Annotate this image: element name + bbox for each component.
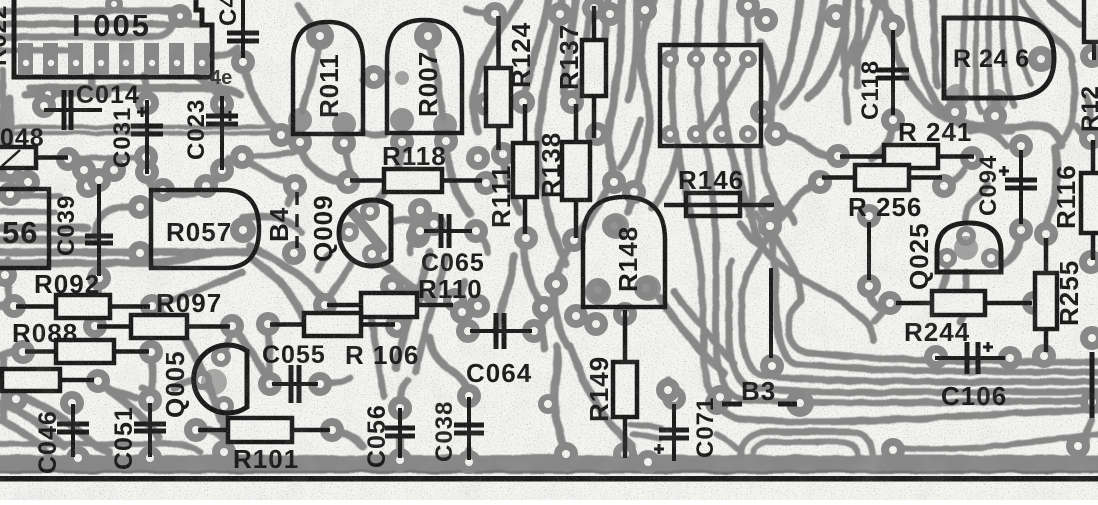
wire square bottom fan 1 bbox=[652, 150, 678, 208]
transistor Q009 outline bbox=[339, 200, 391, 266]
wire left bundle 3 bbox=[0, 248, 250, 256]
resistor R255 bbox=[1035, 238, 1057, 352]
wire Q025 leg mid bbox=[960, 272, 966, 322]
pad above R148 bbox=[602, 170, 646, 204]
wire jumper pads link bbox=[869, 288, 878, 308]
wire R246 right arc 2 bbox=[1050, 0, 1080, 24]
wire center to bottom mid bbox=[555, 162, 612, 346]
pad B3 bbox=[705, 389, 814, 417]
capacitor C106 bbox=[935, 342, 1005, 374]
wire R092 right up diag bbox=[152, 272, 242, 306]
wire R246 halo 2 bbox=[908, 0, 1012, 130]
wire C094 to R255 bbox=[1045, 148, 1057, 236]
wire E right diag 2 bbox=[674, 292, 734, 364]
pad R011 bottom bbox=[288, 130, 356, 155]
wire R092-R097 diag bbox=[152, 306, 221, 420]
pad R118 ends bbox=[336, 92, 498, 195]
wire C071 band join bbox=[674, 458, 694, 463]
wire C051 top link bbox=[142, 388, 150, 400]
pad blob Q009 interior bbox=[352, 212, 382, 248]
lead wire right edge bbox=[1090, 352, 1095, 418]
pad Q009 inside bbox=[339, 201, 382, 264]
resistor R244 bbox=[896, 291, 1032, 315]
wire left y212 bbox=[0, 209, 55, 215]
pad C top bbox=[231, 50, 255, 74]
pad R137 ends bbox=[582, 0, 609, 146]
pad C118 ends bbox=[881, 14, 905, 132]
wire C094 down bbox=[1002, 228, 1021, 264]
pad C039 bottom bbox=[87, 266, 111, 290]
pad blob R148 interior bbox=[585, 213, 661, 305]
resistor R256 bbox=[822, 165, 942, 190]
wire R057 top right bbox=[243, 217, 302, 232]
wire bottom-left diag 3 bbox=[0, 420, 50, 456]
wire e4 feeder bbox=[729, 260, 732, 268]
pad C071 ends bbox=[656, 378, 732, 410]
wire R246 right arc 1 bbox=[1022, 0, 1072, 62]
wire Q009 low right bbox=[380, 262, 432, 302]
pad blob Q005 interior bbox=[201, 369, 227, 395]
wire R246 through v3 bbox=[989, 0, 997, 110]
wire top right fan 4 bbox=[842, 10, 862, 74]
wire R256 left trail bbox=[770, 182, 820, 226]
resistor right edge top bbox=[1092, 42, 1096, 60]
pad R106 ends bbox=[256, 312, 409, 338]
wire Q009 left bbox=[318, 254, 330, 270]
wire R110 down strand bbox=[372, 320, 384, 396]
capacitor C064 bbox=[470, 313, 532, 349]
wire R246 right down bbox=[1060, 66, 1075, 146]
wire e1 feeder diag bbox=[756, 214, 800, 300]
wire R057 left pads link bbox=[96, 207, 128, 240]
pad C106 ends bbox=[924, 345, 1022, 370]
wire left col vert 1 bbox=[6, 98, 14, 152]
pad C055 ends bbox=[258, 372, 332, 396]
wire C071 right diag bbox=[716, 434, 738, 449]
IC I005 pins bbox=[18, 43, 209, 74]
wire Q009 pads to C065 bbox=[392, 219, 420, 224]
wire center down left of R148 bbox=[540, 170, 566, 264]
resistor R241 bbox=[840, 145, 974, 168]
pad C023 bbox=[194, 92, 293, 198]
wire R011 top in bbox=[302, 40, 320, 112]
pad R116 ends bbox=[1079, 126, 1098, 274]
wire right band riser bbox=[1074, 444, 1080, 462]
IC square outline bbox=[660, 45, 761, 146]
pad R148 inside bbox=[586, 214, 658, 302]
wire right edge low bbox=[1086, 420, 1092, 444]
wire right mid diag 1 bbox=[740, 224, 874, 340]
wire R146 right trail bbox=[777, 206, 794, 222]
wire top-left bus 3 bbox=[0, 26, 172, 37]
wire bottom bus s7 low bbox=[898, 434, 1098, 449]
jumper wire B bbox=[867, 222, 871, 280]
wire R007 bottom pad 1 bbox=[372, 144, 402, 206]
transistor Q005 outline bbox=[194, 345, 247, 413]
capacitor C071 bbox=[654, 404, 689, 461]
wire elbow e5 bbox=[697, 0, 1098, 403]
pad 048 lead bbox=[56, 147, 80, 171]
pad top right singles bbox=[754, 4, 848, 32]
pad mid band bbox=[538, 394, 660, 474]
wire R088 right bbox=[151, 352, 153, 398]
pad left res bbox=[4, 369, 110, 411]
wire left bundle 2 bbox=[0, 236, 88, 244]
pad C051 ends bbox=[138, 388, 162, 470]
wire pin5 drop bbox=[144, 76, 147, 94]
pad square IC bbox=[661, 50, 757, 143]
wire R097 right down bbox=[232, 326, 270, 382]
pad blob R007 interior bbox=[390, 71, 457, 137]
wire C094 surround bbox=[970, 130, 1008, 146]
wire R246 halo 3 bbox=[933, 0, 938, 86]
pad Q005 inside bbox=[192, 347, 234, 416]
wire bottom-left diag 2 bbox=[0, 404, 64, 446]
capacitor C046 bbox=[57, 404, 89, 457]
component 56 box bbox=[0, 189, 49, 268]
wire caps to R057 link bbox=[165, 190, 206, 195]
pad R246 inside bbox=[1028, 46, 1054, 72]
wire R092 to left bbox=[0, 302, 14, 310]
pad R101 ends bbox=[184, 418, 344, 442]
wire mid band riser 3 bbox=[542, 310, 544, 348]
pad C064 ends bbox=[456, 319, 546, 343]
wire left edge vert low bbox=[1, 360, 8, 420]
resistor R092 bbox=[16, 295, 150, 318]
pad R092 ends bbox=[2, 294, 164, 318]
wire R011 bottom pad 2 bbox=[344, 145, 352, 176]
wire C071 left link b bbox=[632, 434, 659, 439]
pad blob R011 interior bbox=[288, 108, 356, 136]
pad IC pins under bbox=[39, 0, 192, 103]
wire C4 pad diag to B4 bbox=[244, 160, 294, 186]
pad blob R246 interior bbox=[945, 84, 1008, 111]
wire C118 bottom trail bbox=[872, 118, 893, 158]
wire center bus 7 bbox=[628, 0, 637, 100]
wire R057 right sweep 2 bbox=[254, 260, 304, 322]
capacitor C051 bbox=[134, 403, 166, 457]
wire R256 right pads bbox=[944, 170, 964, 186]
wire mid band riser 2 bbox=[570, 346, 632, 446]
pad Q005 below bbox=[212, 440, 236, 464]
wire Q025 leg left bbox=[940, 270, 947, 294]
resistor R146 bbox=[664, 193, 774, 216]
capacitor C056 bbox=[385, 408, 415, 458]
resistor R088 bbox=[25, 340, 149, 363]
pad R111 ends bbox=[511, 90, 538, 250]
wire right edge vert bbox=[1086, 96, 1091, 122]
pad right edge top bbox=[1080, 44, 1098, 68]
wire C118 col bbox=[845, 0, 848, 122]
pad below R148 bbox=[564, 304, 608, 336]
wire R011 bottom pad 1 down bbox=[300, 144, 344, 182]
wire R246 through v4 bbox=[1002, 0, 1015, 106]
wire left of square 2 bbox=[620, 120, 640, 168]
pad Q009 cluster bbox=[362, 65, 446, 248]
wire bottom band bbox=[0, 455, 1098, 471]
wire R246 lead right bbox=[994, 98, 1001, 116]
pad B4 bbox=[282, 174, 307, 265]
wire C039 pad down bbox=[90, 278, 99, 308]
wire R088 to left bbox=[0, 352, 23, 356]
wire C038 top up bbox=[430, 338, 469, 396]
wire thin pair y127 bbox=[0, 125, 290, 130]
component R007 outline bbox=[387, 20, 462, 133]
wire E right diag 1 bbox=[660, 298, 724, 374]
wire left edge vert pair bbox=[0, 70, 7, 148]
wire left y196 bbox=[0, 193, 60, 199]
wire C031 bottom trail bbox=[147, 174, 162, 192]
resistor R149 bbox=[613, 310, 637, 458]
wire bottom-left diag 1 bbox=[0, 388, 110, 452]
resistor R118 bbox=[350, 169, 482, 192]
wire right of R007 S bbox=[474, 0, 521, 132]
wire left bundle 4 bbox=[0, 252, 246, 263]
wire center bus 5 bbox=[600, 0, 608, 84]
pad blob Q025 interior bbox=[954, 236, 978, 260]
wire Q009 bottom to R110 bbox=[326, 262, 352, 303]
wire R138 top up bbox=[576, 82, 580, 108]
wire C071 top link bbox=[668, 380, 674, 398]
wire Q005 bottom down bbox=[220, 408, 228, 450]
wire bottom nested U2 bbox=[753, 442, 858, 458]
wire y158 right link bbox=[228, 150, 303, 158]
pad C046 ends bbox=[60, 391, 90, 470]
capacitor C094 bbox=[999, 150, 1037, 224]
wire C064 crossing vert bbox=[496, 256, 514, 330]
wire mid bottom verts 2 bbox=[466, 450, 473, 462]
wire elbow e1 bbox=[788, 300, 1098, 362]
pad C056 ends bbox=[388, 396, 412, 472]
wire thin pair y133 bbox=[0, 131, 290, 136]
pad R138 ends bbox=[560, 90, 586, 252]
wire top-left bus 1 bbox=[0, 8, 172, 15]
resistor R110 bbox=[327, 293, 453, 317]
wire center bus 6 bbox=[609, 0, 622, 162]
wire C046 band join bbox=[78, 456, 96, 463]
capacitor C014 bbox=[44, 90, 102, 130]
wire right of square bbox=[760, 42, 774, 142]
wire R110 right pad link bbox=[455, 282, 464, 300]
wire C065 left down bbox=[410, 231, 420, 252]
pad R146 ends bbox=[758, 195, 782, 219]
wire R149 lower join bbox=[630, 452, 650, 463]
wire bottom nested U1 bbox=[741, 432, 873, 458]
wire square to R146 lead bbox=[762, 148, 777, 204]
wire R241 left link bbox=[776, 134, 838, 156]
wire between bottoms bbox=[362, 132, 384, 135]
component R148 outline bbox=[583, 197, 665, 307]
wire R124 bottom out bbox=[503, 158, 520, 212]
resistor R106 bbox=[270, 313, 395, 336]
jumper B3 bbox=[722, 402, 797, 407]
wire left res to C051 bbox=[98, 385, 136, 398]
wire B4 pad link bbox=[288, 190, 295, 204]
wire R116 top link bbox=[1076, 126, 1091, 138]
wire R244 left band drop bbox=[874, 303, 890, 322]
wire cap C4 down to R011 bbox=[243, 64, 281, 134]
wire bottom band edge dark bbox=[0, 471, 1098, 474]
wire R007 bottom pad 2 bbox=[446, 143, 470, 214]
pad jumper bbox=[857, 204, 881, 298]
wire C065 right link bbox=[476, 231, 488, 252]
pad C014 bbox=[32, 94, 56, 118]
capacitor C038 bbox=[454, 397, 484, 460]
pad cluster left bbox=[0, 158, 100, 287]
wire center bus 1 bbox=[522, 0, 548, 108]
wire top right fan 5 bbox=[854, 0, 878, 62]
wire C118 top link bbox=[874, 0, 893, 28]
resistor R137 bbox=[582, 6, 606, 138]
pad E left cluster bbox=[380, 274, 424, 308]
wire left res down bbox=[98, 382, 158, 438]
pad C038 ends bbox=[457, 384, 481, 474]
capacitor C031 bbox=[131, 100, 163, 174]
wire elbow e3 bbox=[742, 210, 1098, 382]
wire E left strand 2 bbox=[416, 256, 446, 372]
pad C038 above bbox=[450, 294, 490, 324]
pad right mid cluster bbox=[750, 100, 788, 378]
pad center mid bbox=[532, 272, 568, 320]
wire R124 top pad row bbox=[466, 10, 490, 13]
pad R088 ends bbox=[11, 340, 163, 364]
wire left of square bbox=[628, 0, 655, 212]
wire elbow e6 bbox=[672, 0, 1098, 422]
wire square col 4 bbox=[747, 0, 748, 40]
pad R057 inside bbox=[230, 217, 256, 243]
wire R101 right to band bbox=[332, 430, 362, 446]
wire E left strand 1 bbox=[396, 252, 430, 368]
wire square col 3 bbox=[721, 0, 760, 242]
wire C118 col 2 bbox=[857, 0, 860, 86]
wire C064 right up bbox=[534, 288, 556, 331]
resistor R138 bbox=[562, 104, 590, 238]
wire square bottom fan 2 bbox=[748, 148, 753, 216]
wire R246 through v5 bbox=[1014, 0, 1032, 84]
capacitor C4 top bbox=[227, 0, 259, 58]
wire under IC to C caps bbox=[30, 88, 240, 95]
component R011 outline bbox=[293, 22, 363, 134]
resistor R124 bbox=[486, 16, 511, 150]
wire R007 top in bbox=[428, 40, 444, 118]
wire under IC row2 bbox=[25, 91, 108, 98]
pad R011 top bbox=[306, 22, 334, 50]
wire Q025 top feed bbox=[966, 184, 988, 220]
pad top mid row bbox=[548, 0, 760, 26]
pad R007 bottom bbox=[390, 129, 458, 154]
pad R255 ends bbox=[1032, 222, 1058, 368]
wire elbow e2 bbox=[770, 230, 1098, 372]
pad R110 ends bbox=[313, 288, 467, 317]
wire between R011 R007 bbox=[363, 73, 387, 80]
wire top-left bus 4 bbox=[0, 47, 70, 53]
pad bottom right band bbox=[881, 326, 1098, 462]
wire R111 bottom trail bbox=[524, 230, 542, 306]
pad R244 ends bbox=[878, 291, 1046, 315]
board edge line bbox=[0, 476, 1098, 482]
capacitor C055 bbox=[272, 365, 318, 403]
wire C055 right to Q005 bbox=[320, 378, 350, 384]
wire R246 through v1 bbox=[957, 0, 966, 112]
resistor R101 bbox=[198, 418, 330, 442]
wire C064 left to R110 bbox=[455, 302, 468, 331]
resistor R097 bbox=[97, 315, 230, 338]
wire elbow e4 bbox=[729, 268, 1098, 392]
resistor R116 bbox=[1081, 140, 1098, 260]
wire mid band riser 1 bbox=[554, 346, 566, 452]
capacitor C065 bbox=[424, 214, 472, 248]
pad R124 ends bbox=[483, 2, 515, 166]
wire IC notch to cap C4 bbox=[212, 48, 238, 56]
component R246 outline bbox=[944, 18, 1054, 98]
pad cluster C039 top bbox=[72, 158, 126, 192]
wire C023 up bbox=[210, 84, 222, 94]
wire square diag in bbox=[700, 62, 746, 134]
wire R246 halo 1 bbox=[884, 0, 1062, 146]
wire Q005 left pad out bbox=[174, 380, 202, 388]
wire R246 through v2 bbox=[976, 0, 981, 112]
wire C056 top up bbox=[400, 380, 408, 406]
pad C065 ends bbox=[408, 219, 488, 243]
wire top-left bus 2 bbox=[0, 21, 200, 28]
capacitor C118 bbox=[877, 30, 909, 115]
IC I005 outline bbox=[14, 0, 212, 77]
wire center bus 2 bbox=[538, 0, 562, 170]
wire R246 lead left bbox=[954, 98, 961, 112]
pad C031 bbox=[134, 91, 175, 202]
pad R256 ends bbox=[808, 170, 956, 198]
capacitor C039 bbox=[85, 184, 113, 276]
wire C023 bottom trail bbox=[208, 170, 222, 188]
pad R149 ends bbox=[613, 302, 637, 466]
pad R097 ends bbox=[83, 314, 244, 338]
wire bottom-left y443 bbox=[0, 444, 200, 452]
transistor Q025 outline bbox=[937, 223, 1001, 272]
wire mid bottom verts 1 bbox=[397, 438, 404, 460]
wire y158 left link bbox=[68, 155, 140, 161]
wire pin3 drop bbox=[89, 76, 96, 92]
wire vert x8 bbox=[5, 260, 12, 300]
wire center bus 3 bbox=[564, 0, 576, 92]
wire top right fan 1 bbox=[764, 0, 800, 114]
wire top right fan 3 bbox=[808, 0, 848, 98]
component R057 outline bbox=[151, 190, 259, 268]
resistor left low bbox=[0, 369, 94, 391]
wire center bus 4 bbox=[584, 0, 590, 62]
resistor R111 bbox=[513, 104, 537, 234]
resistor 048 bbox=[0, 147, 68, 168]
wire C031 to IC bbox=[134, 88, 147, 98]
pad R246 below bbox=[943, 100, 1007, 128]
pad R007 top bbox=[414, 22, 442, 50]
pad Q025 inside bbox=[937, 226, 1001, 268]
wire Q005 top to R097 bbox=[221, 330, 232, 357]
wire Q005 bot to R101 bbox=[208, 429, 224, 440]
pad R241 ends bbox=[826, 144, 984, 170]
wire R057 right sweep 1 bbox=[250, 246, 326, 304]
line B4 bbox=[295, 192, 299, 248]
lead wire right mid bbox=[769, 268, 773, 358]
wire pin7 drop bbox=[196, 76, 216, 92]
pad C094 ends bbox=[1009, 134, 1033, 242]
wire R011 top out bbox=[298, 6, 320, 36]
wire left edge pads row bbox=[0, 174, 28, 182]
wire top right fan 2 bbox=[784, 0, 824, 106]
wire R106 left pad down bbox=[268, 328, 270, 382]
wire left bundle 1 bbox=[0, 224, 88, 232]
capacitor C023 bbox=[206, 96, 238, 170]
wire C071 left link a bbox=[630, 424, 662, 429]
